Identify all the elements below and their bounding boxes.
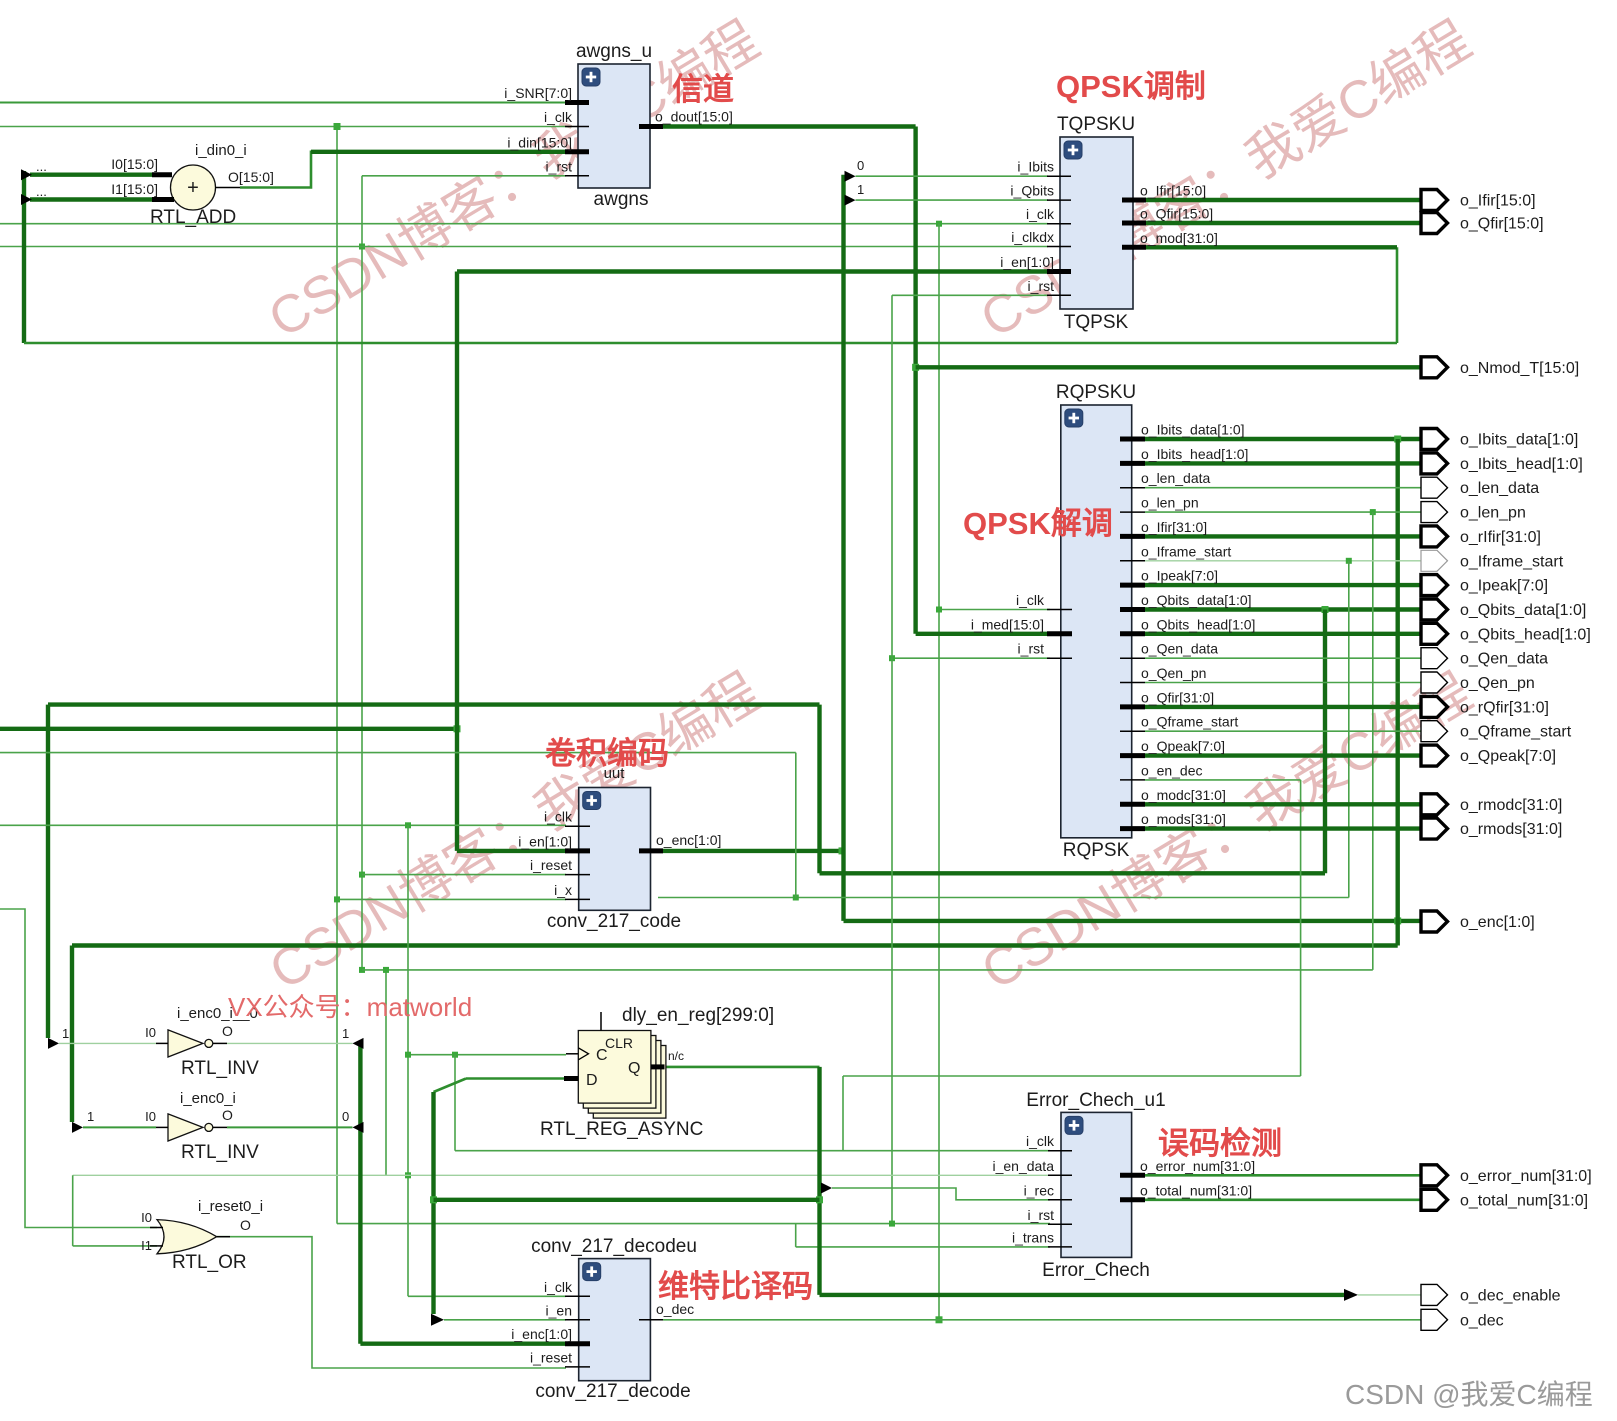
wire net o_Qfir TQPSK xyxy=(1145,221,1421,225)
wire net o_mod row xyxy=(1145,245,1397,249)
wire net o_dout vertical x915 xyxy=(913,127,917,634)
svg-text:o_len_pn: o_len_pn xyxy=(1460,505,1526,522)
wire net o_en_dec row xyxy=(1145,779,1301,781)
svg-text:0: 0 xyxy=(342,1109,349,1124)
junction o_Ibits_data loop xyxy=(1394,436,1401,443)
wire net decode i_en row xyxy=(444,1319,566,1321)
svg-text:QPSK调制: QPSK调制 xyxy=(1056,69,1206,104)
svg-text:o_dec: o_dec xyxy=(1460,1312,1504,1329)
pin TQPSK o_Ifir[15:0] xyxy=(1122,198,1146,203)
pin Error_Chech i_trans xyxy=(1048,1246,1072,1248)
pin RQPSK o_Iframe_start xyxy=(1120,560,1145,562)
wire net o_dec_enable port stub xyxy=(1358,1294,1421,1296)
pin Error_Chech o_total_num[31:0] xyxy=(1120,1197,1145,1202)
wire net o_Ibits_data loop vertical x1397 xyxy=(1395,439,1399,946)
or-gate i_reset0_i RTL_OR xyxy=(157,1220,217,1254)
svg-text:CSDN @我爱C编程: CSDN @我爱C编程 xyxy=(1345,1379,1593,1410)
svg-text:I0: I0 xyxy=(141,1210,152,1225)
wire net OR I1 vertical x72 xyxy=(72,1175,74,1246)
wire net INV2 input xyxy=(83,1126,156,1128)
wire net o_Qbits_data loop vertical x819 xyxy=(817,705,821,874)
svg-text:o_Nmod_T[15:0]: o_Nmod_T[15:0] xyxy=(1460,360,1579,377)
adder i_din0_i RTL_ADD xyxy=(171,165,216,210)
module conv_217_decodeu (Viterbi decoder) xyxy=(579,1259,651,1381)
pin conv_217_decode i_en xyxy=(565,1319,590,1321)
wire net i_trans vertical x795 xyxy=(795,1224,797,1247)
svg-text:I0: I0 xyxy=(145,1109,156,1124)
wire net i_enc bus row xyxy=(360,1341,566,1345)
inverter1 input stub xyxy=(156,1042,168,1044)
svg-text:Error_Chech: Error_Chech xyxy=(1042,1260,1150,1281)
module Error_Chech_u1 (error detector) xyxy=(1061,1112,1132,1257)
svg-text:o_Qpeak[7:0]: o_Qpeak[7:0] xyxy=(1141,738,1225,754)
port o_rIfir[31:0] xyxy=(1421,526,1448,547)
junction x386 top xyxy=(383,967,389,973)
pin awgns i_SNR[7:0] xyxy=(565,100,589,105)
port o_Nmod_T[15:0] xyxy=(1421,357,1448,378)
pin reg C clock chevron xyxy=(578,1048,588,1060)
wire net awgns i_rst from x362 xyxy=(362,175,566,177)
svg-text:i_clk: i_clk xyxy=(1026,1133,1055,1149)
wire net QD link row y1199 xyxy=(434,1198,820,1202)
svg-text:o_Qbits_head[1:0]: o_Qbits_head[1:0] xyxy=(1141,616,1255,632)
svg-text:i_rst: i_rst xyxy=(1018,641,1045,657)
module awgns_u (channel AWGN) xyxy=(578,64,650,188)
port o_enc[1:0] xyxy=(1421,911,1448,932)
svg-text:i_x: i_x xyxy=(554,882,572,898)
svg-text:o_Ibits_data[1:0]: o_Ibits_data[1:0] xyxy=(1460,432,1578,449)
wire net OR I1 feed row y1175 xyxy=(73,1174,1050,1176)
pin RQPSK o_Qen_pn xyxy=(1120,682,1145,684)
wire net enc bit1 to TQPSK i_Qbits xyxy=(856,199,1049,201)
svg-text:i_clkdx: i_clkdx xyxy=(1011,229,1054,245)
junction clk x337 xyxy=(334,123,341,130)
svg-text:RTL_REG_ASYNC: RTL_REG_ASYNC xyxy=(540,1119,703,1140)
svg-text:i_rst: i_rst xyxy=(546,158,573,174)
wire net o_len_pn row xyxy=(1145,511,1421,513)
wire net o_len_data row xyxy=(1145,487,1421,489)
wire net OR I1 row xyxy=(73,1245,157,1247)
svg-text:o_rmods[31:0]: o_rmods[31:0] xyxy=(1460,821,1562,838)
svg-text:o_len_pn: o_len_pn xyxy=(1141,495,1199,511)
wire net o_enc bottom row to port xyxy=(844,919,1422,923)
adder output stub xyxy=(215,187,240,189)
wire net o_Qbits_data row xyxy=(1145,607,1421,611)
pin conv_217_code o_enc[1:0] xyxy=(639,848,663,853)
port o_rmods[31:0] xyxy=(1421,818,1448,839)
wire net o_Qpeak row xyxy=(1145,753,1421,757)
wire net i_med row xyxy=(916,632,1048,636)
svg-text:I1: I1 xyxy=(141,1238,152,1253)
svg-text:o_total_num[31:0]: o_total_num[31:0] xyxy=(1140,1182,1252,1198)
svg-text:o_Iframe_start: o_Iframe_start xyxy=(1460,553,1564,570)
pin reg CLR stub xyxy=(600,1012,602,1031)
svg-text:o_len_data: o_len_data xyxy=(1460,480,1539,497)
svg-text:i_reset0_i: i_reset0_i xyxy=(198,1198,263,1215)
svg-text:i_med[15:0]: i_med[15:0] xyxy=(971,616,1044,632)
svg-text:RQPSKU: RQPSKU xyxy=(1056,382,1136,403)
wire net o_len_pn bottom row to x362 xyxy=(362,969,1373,971)
svg-text:i_Ibits: i_Ibits xyxy=(1017,159,1054,175)
or input I1 stub xyxy=(150,1245,163,1247)
svg-text:i_reset: i_reset xyxy=(530,1349,572,1365)
svg-text:conv_217_code: conv_217_code xyxy=(547,911,681,932)
pin RQPSK o_len_pn xyxy=(1120,511,1145,513)
wire net i_din0 I0 xyxy=(30,172,152,176)
svg-text:o_rmodc[31:0]: o_rmodc[31:0] xyxy=(1460,797,1562,814)
svg-text:i_enc[1:0]: i_enc[1:0] xyxy=(511,1326,572,1342)
port o_Qframe_start xyxy=(1421,721,1448,742)
svg-text:o_rIfir[31:0]: o_rIfir[31:0] xyxy=(1460,529,1541,546)
pin RQPSK o_Qpeak[7:0] xyxy=(1120,753,1145,758)
svg-text:1: 1 xyxy=(62,1026,69,1041)
wire net o_enc row from conv xyxy=(663,849,844,853)
wire net i_en vertical x457 xyxy=(455,272,459,851)
wire net o_Qbits_data loop vertical x1325 xyxy=(1323,610,1327,874)
wire net RQPSK i_clk xyxy=(939,609,1050,611)
pin RQPSK o_Ipeak[7:0] xyxy=(1120,583,1145,588)
wire net error clk vertical x455 xyxy=(454,1055,456,1151)
pin TQPSK o_mod[31:0] xyxy=(1122,245,1146,250)
svg-text:i_clk: i_clk xyxy=(544,809,573,825)
wire net reg C row xyxy=(408,1054,566,1056)
svg-text:o_Ibits_data[1:0]: o_Ibits_data[1:0] xyxy=(1141,422,1245,438)
svg-text:o_Qbits_data[1:0]: o_Qbits_data[1:0] xyxy=(1141,592,1252,608)
wire net o_dec row xyxy=(663,1319,1421,1321)
wire net o_Qbits_data loop vertical x48 xyxy=(46,705,50,1038)
svg-text:awgns: awgns xyxy=(594,189,649,210)
wire net rst vertical x892 xyxy=(891,295,893,1223)
pin RQPSK o_Qbits_data[1:0] xyxy=(1120,607,1145,612)
arrow enc bit1 xyxy=(845,195,856,206)
wire net clk vertical x939 xyxy=(938,224,940,1320)
wire net o_Qframe_start row xyxy=(1145,730,1421,732)
port o_len_pn xyxy=(1421,502,1448,523)
svg-text:o_dout[15:0]: o_dout[15:0] xyxy=(655,109,733,125)
svg-text:Error_Chech_u1: Error_Chech_u1 xyxy=(1026,1090,1165,1111)
svg-text:1: 1 xyxy=(87,1109,94,1124)
wire net o_Ibits_data loop bottom row xyxy=(72,943,1398,947)
pin conv_217_code i_x xyxy=(565,898,590,900)
svg-text:...: ... xyxy=(36,159,47,174)
pin conv_217_decode o_dec xyxy=(639,1319,663,1321)
pin awgns i_rst xyxy=(565,175,589,177)
adder input stub I0 xyxy=(152,172,172,177)
wire net o_Qen_pn row xyxy=(1145,682,1421,684)
inverter i_enc0_i__0 RTL_INV xyxy=(168,1030,203,1057)
pin TQPSK i_Ibits xyxy=(1047,175,1071,177)
arrow o_dec_enable xyxy=(1344,1289,1358,1301)
junction x362 len_pn loop xyxy=(359,967,365,973)
svg-text:o_Ipeak[7:0]: o_Ipeak[7:0] xyxy=(1141,568,1218,584)
svg-text:o_Qpeak[7:0]: o_Qpeak[7:0] xyxy=(1460,748,1556,765)
port o_Ipeak[7:0] xyxy=(1421,575,1448,596)
svg-text:o_error_num[31:0]: o_error_num[31:0] xyxy=(1460,1168,1592,1185)
svg-text:i_en: i_en xyxy=(546,1302,572,1318)
wire net o_enc vertical x843 xyxy=(841,175,845,921)
wire net OR output xyxy=(217,1237,566,1368)
arrow INV1 out bit1 xyxy=(353,1038,364,1049)
pin awgns o_dout[15:0] xyxy=(639,124,663,129)
wire net REG D row xyxy=(466,1077,564,1080)
junction o_enc port row xyxy=(1394,917,1401,924)
wire net conv i_reset row xyxy=(362,874,566,876)
wire net o_rQfir row xyxy=(1145,705,1421,709)
wire net INV1 input xyxy=(59,1042,156,1044)
pin RQPSK o_Ifir[31:0] xyxy=(1120,534,1145,539)
arrow INV2 in xyxy=(72,1122,83,1133)
svg-text:RTL_OR: RTL_OR xyxy=(172,1252,247,1273)
svg-text:o_Qbits_data[1:0]: o_Qbits_data[1:0] xyxy=(1460,602,1586,619)
svg-text:TQPSK: TQPSK xyxy=(1064,312,1129,333)
junction iframe row x795 xyxy=(793,895,799,901)
svg-text:o_len_data: o_len_data xyxy=(1141,470,1211,486)
wire net o_Iframe_start bottom row xyxy=(658,897,1349,899)
svg-text:conv_217_decodeu: conv_217_decodeu xyxy=(531,1236,697,1257)
svg-text:信道: 信道 xyxy=(672,72,734,107)
wire net i_en row to TQPSK xyxy=(457,269,1048,273)
wire net o_Ibits_data row xyxy=(1145,437,1421,441)
pin conv_217_decode i_reset xyxy=(565,1366,590,1368)
wire net o_Ibits_head row xyxy=(1145,461,1421,465)
arrow INV1 in xyxy=(48,1038,59,1049)
port o_rmodc[31:0] xyxy=(1421,794,1448,815)
wire net o_en_dec vertical x1300 xyxy=(1300,780,1302,1076)
port o_Ifir[15:0] xyxy=(1421,190,1448,211)
module RQPSKU (QPSK demodulator) xyxy=(1061,405,1132,838)
svg-text:O: O xyxy=(240,1217,251,1233)
wire net i_enc bus vertical x360 xyxy=(358,1043,362,1343)
wire net clk vertical x337 xyxy=(336,127,338,1224)
junction rst row x892 xyxy=(889,1221,895,1227)
svg-text:+: + xyxy=(187,177,199,199)
wire net o_Ibits_data loop vertical x72 xyxy=(70,946,74,1123)
pin conv_217_decode i_clk xyxy=(565,1295,590,1297)
svg-text:I0[15:0]: I0[15:0] xyxy=(111,156,158,172)
svg-text:C: C xyxy=(596,1047,608,1064)
junction clk RQPSK row xyxy=(936,607,942,613)
svg-text:o_Ibits_head[1:0]: o_Ibits_head[1:0] xyxy=(1460,456,1583,473)
inverter2 output stub xyxy=(213,1126,227,1128)
inverter i_enc0_i RTL_INV xyxy=(168,1114,203,1141)
junction i_rst RQPSK xyxy=(889,655,895,661)
junction conv clk x408 xyxy=(405,822,411,828)
junction o_len_pn loop xyxy=(1370,509,1376,515)
or output stub xyxy=(217,1236,230,1238)
inverter1 output stub xyxy=(213,1042,227,1044)
svg-text:o_Qfir[15:0]: o_Qfir[15:0] xyxy=(1460,216,1544,233)
svg-text:RTL_INV: RTL_INV xyxy=(181,1142,259,1163)
port o_error_num[31:0] xyxy=(1421,1165,1448,1186)
wire net o_Iframe_start row xyxy=(1145,560,1421,562)
junction reg C x408 xyxy=(405,1052,411,1058)
svg-text:o_enc[1:0]: o_enc[1:0] xyxy=(1460,914,1535,931)
pin RQPSK o_Qfir[31:0] xyxy=(1120,704,1145,709)
wire net o_mod loop bottom row xyxy=(24,342,1397,345)
svg-text:误码检测: 误码检测 xyxy=(1158,1126,1282,1161)
svg-text:i_rst: i_rst xyxy=(1028,1207,1055,1223)
wire net enc bit0 to TQPSK i_Ibits xyxy=(856,175,1049,177)
svg-text:o_Qframe_start: o_Qframe_start xyxy=(1141,714,1238,730)
svg-text:i_din0_i: i_din0_i xyxy=(195,142,247,159)
pin conv_217_decode i_enc[1:0] xyxy=(565,1341,590,1346)
pin Error_Chech i_rst xyxy=(1048,1223,1072,1225)
svg-text:i_trans: i_trans xyxy=(1012,1229,1054,1245)
wire net clk vertical x408 xyxy=(407,825,409,1296)
svg-text:o_total_num[31:0]: o_total_num[31:0] xyxy=(1460,1192,1588,1209)
port o_dec_enable xyxy=(1421,1284,1448,1305)
junction x362 clkdx row xyxy=(359,244,365,250)
junction i_en x457 xyxy=(454,725,461,732)
svg-text:RTL_ADD: RTL_ADD xyxy=(150,207,236,228)
wire net o_rIfir row xyxy=(1145,534,1421,538)
svg-text:i_rec: i_rec xyxy=(1024,1182,1054,1198)
wire net INV1 output xyxy=(227,1042,353,1044)
svg-text:O: O xyxy=(222,1107,233,1123)
svg-text:o_Qen_data: o_Qen_data xyxy=(1460,651,1548,668)
wire net o_dout horizontal xyxy=(650,124,916,128)
svg-text:I0: I0 xyxy=(145,1025,156,1040)
port o_Ibits_data[1:0] xyxy=(1421,429,1448,450)
arrow enc bit0 xyxy=(845,171,856,182)
svg-text:Q: Q xyxy=(628,1060,640,1077)
svg-text:TQPSKU: TQPSKU xyxy=(1057,114,1135,135)
junction en_data x408 xyxy=(405,1172,411,1178)
pin RQPSK o_Ibits_data[1:0] xyxy=(1120,437,1145,442)
port o_dec xyxy=(1421,1309,1448,1330)
adder input stub I1 xyxy=(152,197,174,202)
svg-text:o_Qen_pn: o_Qen_pn xyxy=(1141,665,1206,681)
pin RQPSK o_Ibits_head[1:0] xyxy=(1120,461,1145,466)
pin RQPSK i_clk xyxy=(1047,609,1072,611)
wire net Q vertical x819 xyxy=(817,1067,821,1295)
port o_Qfir[15:0] xyxy=(1421,213,1448,234)
wire net i_clkdx row xyxy=(0,246,1048,248)
svg-text:i_clk: i_clk xyxy=(544,109,573,125)
module uut conv_217_code (convolutional encoder) xyxy=(579,788,651,911)
port o_total_num[31:0] xyxy=(1421,1189,1448,1210)
wire net o_Ipeak row xyxy=(1145,583,1421,587)
svg-text:o_rQfir[31:0]: o_rQfir[31:0] xyxy=(1460,699,1549,716)
pin RQPSK o_len_data xyxy=(1120,487,1145,489)
wire net o_Qbits_data loop top row xyxy=(48,702,820,706)
wire net conv i_x row xyxy=(337,898,566,900)
wire net D vertical x433 xyxy=(431,1092,435,1314)
wire net o_error_num row xyxy=(1145,1174,1421,1177)
svg-text:维特比译码: 维特比译码 xyxy=(658,1269,813,1304)
pin TQPSK i_rst xyxy=(1047,294,1071,296)
svg-text:i_rst: i_rst xyxy=(1028,278,1055,294)
wire net left feed vertical x795 xyxy=(795,753,797,898)
wire net x362 vertical xyxy=(361,176,363,970)
pin awgns i_clk xyxy=(565,126,589,128)
pin reg Q stub xyxy=(651,1064,665,1069)
pin reg D stub xyxy=(564,1076,578,1081)
port o_Iframe_start xyxy=(1421,550,1448,571)
svg-text:o_Ibits_head[1:0]: o_Ibits_head[1:0] xyxy=(1141,446,1248,462)
register dly_en_reg RTL_REG_ASYNC stack xyxy=(593,1046,666,1119)
junction o_Nmod_T tee xyxy=(912,364,919,371)
arrow input I1 xyxy=(21,194,32,205)
arrow decode i_en xyxy=(431,1314,444,1326)
svg-text:i_clk: i_clk xyxy=(1026,206,1055,222)
svg-text:o_Ifir[15:0]: o_Ifir[15:0] xyxy=(1460,193,1536,210)
wire net o_len_pn vertical x1372 xyxy=(1372,512,1374,970)
pin RQPSK o_Qbits_head[1:0] xyxy=(1120,631,1145,636)
svg-text:n/c: n/c xyxy=(668,1049,684,1063)
wire net INV2 output xyxy=(227,1126,353,1128)
wire net REG D diagonal jog xyxy=(434,1079,467,1093)
svg-text:卷积编码: 卷积编码 xyxy=(545,736,669,771)
svg-text:o_Ipeak[7:0]: o_Ipeak[7:0] xyxy=(1460,578,1548,595)
wire net o_Iframe_start vertical x1348 xyxy=(1348,561,1350,898)
svg-text:o_dec_enable: o_dec_enable xyxy=(1460,1287,1561,1304)
junction o_Qbits_data loop xyxy=(1322,606,1329,613)
svg-text:o_Iframe_start: o_Iframe_start xyxy=(1141,543,1231,559)
svg-text:i_en_data: i_en_data xyxy=(992,1158,1054,1174)
pin RQPSK o_modc[31:0] xyxy=(1120,802,1145,807)
junction D y1199 xyxy=(430,1196,437,1203)
port o_Qpeak[7:0] xyxy=(1421,745,1448,766)
svg-text:i_enc0_i: i_enc0_i xyxy=(180,1090,236,1107)
pin RQPSK o_en_dec xyxy=(1120,779,1145,781)
svg-text:o_enc[1:0]: o_enc[1:0] xyxy=(656,832,721,848)
port o_Qen_data xyxy=(1421,648,1448,669)
pin Error_Chech i_en_data xyxy=(1048,1174,1072,1176)
wire net error i_clk row xyxy=(455,1150,1050,1152)
module TQPSKU (QPSK modulator) xyxy=(1060,137,1133,309)
wire net i_en row left xyxy=(0,727,457,731)
pin conv_217_code i_reset xyxy=(565,874,590,876)
pin RQPSK i_rst xyxy=(1047,657,1072,659)
wire net TQPSK i_rst row xyxy=(892,294,1048,296)
wire net clk awgns row xyxy=(0,126,572,128)
svg-text:D: D xyxy=(586,1072,598,1089)
svg-text:o_modc[31:0]: o_modc[31:0] xyxy=(1141,787,1226,803)
svg-text:i_clk: i_clk xyxy=(1016,592,1045,608)
port o_Qbits_head[1:0] xyxy=(1421,623,1448,644)
svg-text:i_clk: i_clk xyxy=(544,1279,573,1295)
pin RQPSK i_med[15:0] xyxy=(1047,631,1072,636)
junction o_enc tee x843 xyxy=(839,847,846,854)
wire net error i_trans row xyxy=(796,1246,1050,1248)
svg-text:i_din[15:0]: i_din[15:0] xyxy=(507,134,572,150)
pin Error_Chech i_clk xyxy=(1048,1150,1072,1152)
pin reg C stub xyxy=(566,1053,578,1055)
wire net RQPSK i_rst xyxy=(892,657,1050,659)
port o_len_data xyxy=(1421,477,1448,498)
junction i_x x337 xyxy=(334,896,340,902)
wire net o_en_dec return row y1076 xyxy=(843,1075,1301,1077)
pin TQPSK i_Qbits xyxy=(1047,199,1071,201)
svg-text:o_mod[31:0]: o_mod[31:0] xyxy=(1140,230,1218,246)
svg-text:i_Qbits: i_Qbits xyxy=(1010,183,1054,199)
svg-text:RQPSK: RQPSK xyxy=(1063,840,1130,861)
port o_Ibits_head[1:0] xyxy=(1421,453,1448,474)
junction reg C x455 xyxy=(452,1052,458,1058)
wire net o_Nmod_T row xyxy=(916,365,1421,369)
wire net o_Qen_data row xyxy=(1145,657,1421,659)
pin Error_Chech o_error_num[31:0] xyxy=(1120,1173,1145,1178)
wire net o_total_num row xyxy=(1145,1199,1421,1202)
or input I0 stub xyxy=(150,1227,163,1229)
wire net o_en_dec vertical x843 xyxy=(842,1076,844,1151)
wire net REG Q row xyxy=(665,1066,820,1069)
svg-text:o_Qfir[15:0]: o_Qfir[15:0] xyxy=(1140,206,1213,222)
wire net i_rec jog xyxy=(832,1188,1050,1200)
svg-text:O: O xyxy=(222,1023,233,1039)
svg-text:i_en[1:0]: i_en[1:0] xyxy=(518,833,572,849)
